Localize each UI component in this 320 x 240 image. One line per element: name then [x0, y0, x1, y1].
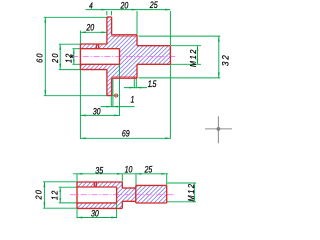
- hub step top edge: [112, 34, 137, 36]
- point marker X at axis left end: [70, 55, 73, 58]
- arrow 69 left: [80, 137, 85, 139]
- ext at step up: [121, 173, 123, 181]
- dimension 1.5 line: [124, 87, 147, 89]
- bore bottom line: [80, 63, 119, 65]
- green dimension framework, bottom view: [43, 173, 196, 218]
- hatch: threaded end section: [137, 46, 170, 65]
- 12 extension bottom: [72, 63, 80, 65]
- dimension 12 line: [59, 188, 61, 203]
- extension line flange right top: [111, 11, 113, 15]
- 20 ext bottom: [43, 207, 77, 209]
- hub step right face: [136, 35, 138, 78]
- 20 extension bottom: [59, 69, 80, 71]
- bottom band division lines: [94, 182, 96, 187]
- extension line flange left top: [106, 11, 108, 15]
- arrow 30b left: [77, 217, 82, 219]
- M12 dimension line: [197, 46, 199, 64]
- ext at left face down: [76, 209, 78, 219]
- hatch: thread section bottom view: [136, 185, 167, 203]
- flange top edge: [107, 16, 112, 18]
- 60 extension bottom: [44, 95, 119, 97]
- 12 ext bottom: [59, 202, 77, 204]
- 32 extension bottom: [139, 77, 221, 79]
- svg-text:12: 12: [50, 189, 60, 200]
- extension for dim 1 at flange edge: [110, 96, 112, 107]
- ext at thread start up: [135, 173, 137, 185]
- M12 ext bottom: [167, 201, 196, 203]
- arrow into flange left (dim 4): [101, 9, 106, 11]
- 20 ext top: [43, 181, 77, 183]
- dimension arrows, bottom view: [43, 173, 195, 219]
- svg-text:32: 32: [220, 53, 231, 66]
- svg-text:1: 1: [130, 95, 134, 105]
- extension at left face down: [79, 70, 81, 139]
- M12 ext top: [167, 182, 196, 184]
- red grip circle at flange bottom extension: [115, 94, 118, 97]
- left cylinder top edge: [80, 43, 107, 45]
- thread section bottom edge: [137, 63, 170, 65]
- arrow 12 bottom: [73, 60, 75, 65]
- arrow 20dia bottom: [59, 64, 61, 69]
- dimension 30 line: [80, 114, 119, 116]
- flange right edge: [111, 17, 113, 96]
- dimension 20 line: [43, 182, 45, 208]
- arrow 12b bottom: [59, 198, 61, 203]
- 12 ext top: [59, 186, 77, 188]
- bottom right end face: [166, 185, 168, 203]
- M12 dim line bottom view: [193, 183, 195, 201]
- svg-text:30: 30: [91, 209, 99, 219]
- crosshair vertical arm: [217, 116, 219, 143]
- extension for dim 1 at chamfer: [112, 78, 114, 107]
- dimension 30 bottom line: [77, 217, 117, 219]
- arrow 20mid right: [101, 31, 106, 33]
- arrow 20b top: [43, 182, 45, 187]
- 12 extension top: [72, 48, 80, 50]
- left face of part: [79, 44, 81, 70]
- hatch: left cylinder upper wall band: [80, 44, 107, 49]
- neck top edge: [122, 187, 136, 189]
- arrow dim1 right outside: [113, 106, 118, 108]
- svg-text:25: 25: [149, 0, 158, 10]
- ext at bore end down: [116, 203, 118, 218]
- arrow 35 right: [117, 173, 122, 175]
- svg-text:20: 20: [50, 52, 60, 63]
- dimension arrows, top view: [44, 9, 219, 140]
- flange bottom edge: [107, 95, 112, 97]
- 1.5 extension lines: [134, 78, 136, 88]
- flange left edge: [106, 17, 108, 96]
- 20 extension top: [59, 43, 80, 45]
- bore top line: [80, 48, 119, 50]
- arrow 12 top: [73, 49, 75, 54]
- arrow 20mid left: [80, 31, 85, 33]
- dimension texts, top view: [35, 0, 230, 138]
- svg-text:35: 35: [95, 166, 103, 176]
- svg-text:10: 10: [125, 165, 133, 175]
- svg-text:20: 20: [34, 189, 44, 200]
- dimension 60 line: [44, 17, 46, 95]
- dimension 20 (dia) line: [59, 44, 61, 69]
- arrow M12b bottom: [193, 197, 195, 202]
- bottom bore end face: [116, 187, 118, 203]
- dimension 69 line: [80, 137, 170, 139]
- svg-text:20: 20: [86, 23, 95, 33]
- arrow M12 top: [197, 46, 199, 51]
- arrow 30b right: [111, 217, 116, 219]
- internal thread end lines in upper band: [96, 44, 98, 49]
- neck bottom edge: [122, 200, 136, 202]
- svg-text:25: 25: [144, 165, 153, 175]
- hatch: solid disc between bore end and step: [117, 182, 123, 208]
- hatch: neck section: [122, 188, 136, 201]
- bottom view left face: [76, 182, 78, 208]
- svg-text:12: 12: [64, 52, 74, 63]
- ext at left face up: [76, 173, 78, 181]
- 60 extension top: [44, 16, 107, 18]
- hatch: flange upper part: [107, 17, 112, 49]
- arrow 12b top: [59, 188, 61, 193]
- its left extension: [79, 31, 81, 45]
- arrow 20b bottom: [43, 203, 45, 208]
- axis line of top view (pink dash-dot): [72, 55, 177, 57]
- hub step bottom edge: [112, 77, 137, 79]
- svg-text:60: 60: [35, 52, 45, 63]
- hub thread minor lines (thin red): [112, 36, 137, 77]
- arrow 20dia top: [59, 44, 61, 49]
- hatch: bottom upper wall band: [77, 182, 117, 187]
- groove notch lines at step bottom: [134, 77, 136, 78]
- arrow M12b top: [193, 183, 195, 188]
- arrow 69 right: [165, 137, 170, 139]
- dimension 1 line: [101, 106, 135, 108]
- ext at right face up: [166, 173, 168, 185]
- svg-text:30: 30: [93, 107, 101, 117]
- extension line hub right top: [136, 11, 138, 34]
- 32 extension top: [139, 35, 221, 37]
- arrow 25 right: [161, 173, 166, 175]
- crosshair horizontal arm: [205, 128, 232, 130]
- arrows 1.5: [129, 87, 134, 89]
- left cylinder bottom edge: [80, 69, 107, 71]
- arrow at hub right (dim 20 top): [132, 9, 137, 11]
- bottom bore top line: [77, 186, 117, 188]
- arrow 35 left: [77, 173, 82, 175]
- thread start line: [135, 185, 137, 203]
- axis line of bottom view: [70, 194, 175, 196]
- svg-text:M12: M12: [189, 48, 198, 67]
- arrow 32 top: [218, 36, 220, 41]
- crosshair center dot: [217, 127, 221, 131]
- arrow 32 bottom: [218, 73, 220, 78]
- bottom bore bottom line: [77, 202, 117, 204]
- dimension 12 (bore) line: [73, 49, 75, 64]
- bottom thread top edge: [136, 184, 167, 186]
- dimension 32 line: [218, 36, 220, 78]
- top dimension line (35 / 10 / 25): [73, 173, 168, 175]
- arrow 60 bottom: [44, 90, 46, 95]
- extension at bore end down: [119, 64, 121, 116]
- bottom cylinder bottom edge: [77, 207, 122, 209]
- hatch: hub step upper: [112, 35, 137, 49]
- hatch: hub step lower: [112, 64, 137, 78]
- svg-text:1.5: 1.5: [148, 79, 157, 89]
- hatch: left cylinder lower wall band: [80, 64, 107, 69]
- svg-text:4: 4: [89, 1, 93, 11]
- extension line part right end top: [169, 11, 171, 45]
- dimension 20 (left cyl length) line: [80, 31, 106, 33]
- arrow at right end (dim 25): [165, 9, 170, 11]
- hatch: flange lower part: [107, 64, 112, 95]
- right end face: [169, 46, 171, 65]
- M12 extension top: [171, 45, 201, 47]
- top dimension line (4 / 20 / 25): [86, 9, 171, 11]
- thread section top edge: [137, 45, 170, 47]
- hatch: bottom lower wall band: [77, 203, 117, 209]
- M12 extension bottom: [171, 63, 201, 65]
- svg-text:69: 69: [122, 129, 130, 139]
- svg-text:M12: M12: [187, 183, 196, 202]
- extension right end down: [169, 64, 171, 139]
- bottom thread bottom edge: [136, 202, 167, 204]
- arrow 60 top: [44, 17, 46, 22]
- hatch: solid core right of bore end: [120, 49, 138, 65]
- svg-text:20: 20: [120, 1, 129, 11]
- green dimension framework, top view: [44, 10, 221, 139]
- arrow dim1 left outside: [106, 106, 111, 108]
- arrow 25 left: [136, 173, 141, 175]
- arrow M12 bottom: [197, 59, 199, 64]
- bore end face: [119, 49, 121, 65]
- bottom step face: [121, 182, 123, 208]
- bottom cylinder top edge: [77, 181, 122, 183]
- dimension texts, bottom view: [34, 165, 196, 219]
- arrow 30 left: [80, 114, 85, 116]
- arrow 30 right: [114, 114, 119, 116]
